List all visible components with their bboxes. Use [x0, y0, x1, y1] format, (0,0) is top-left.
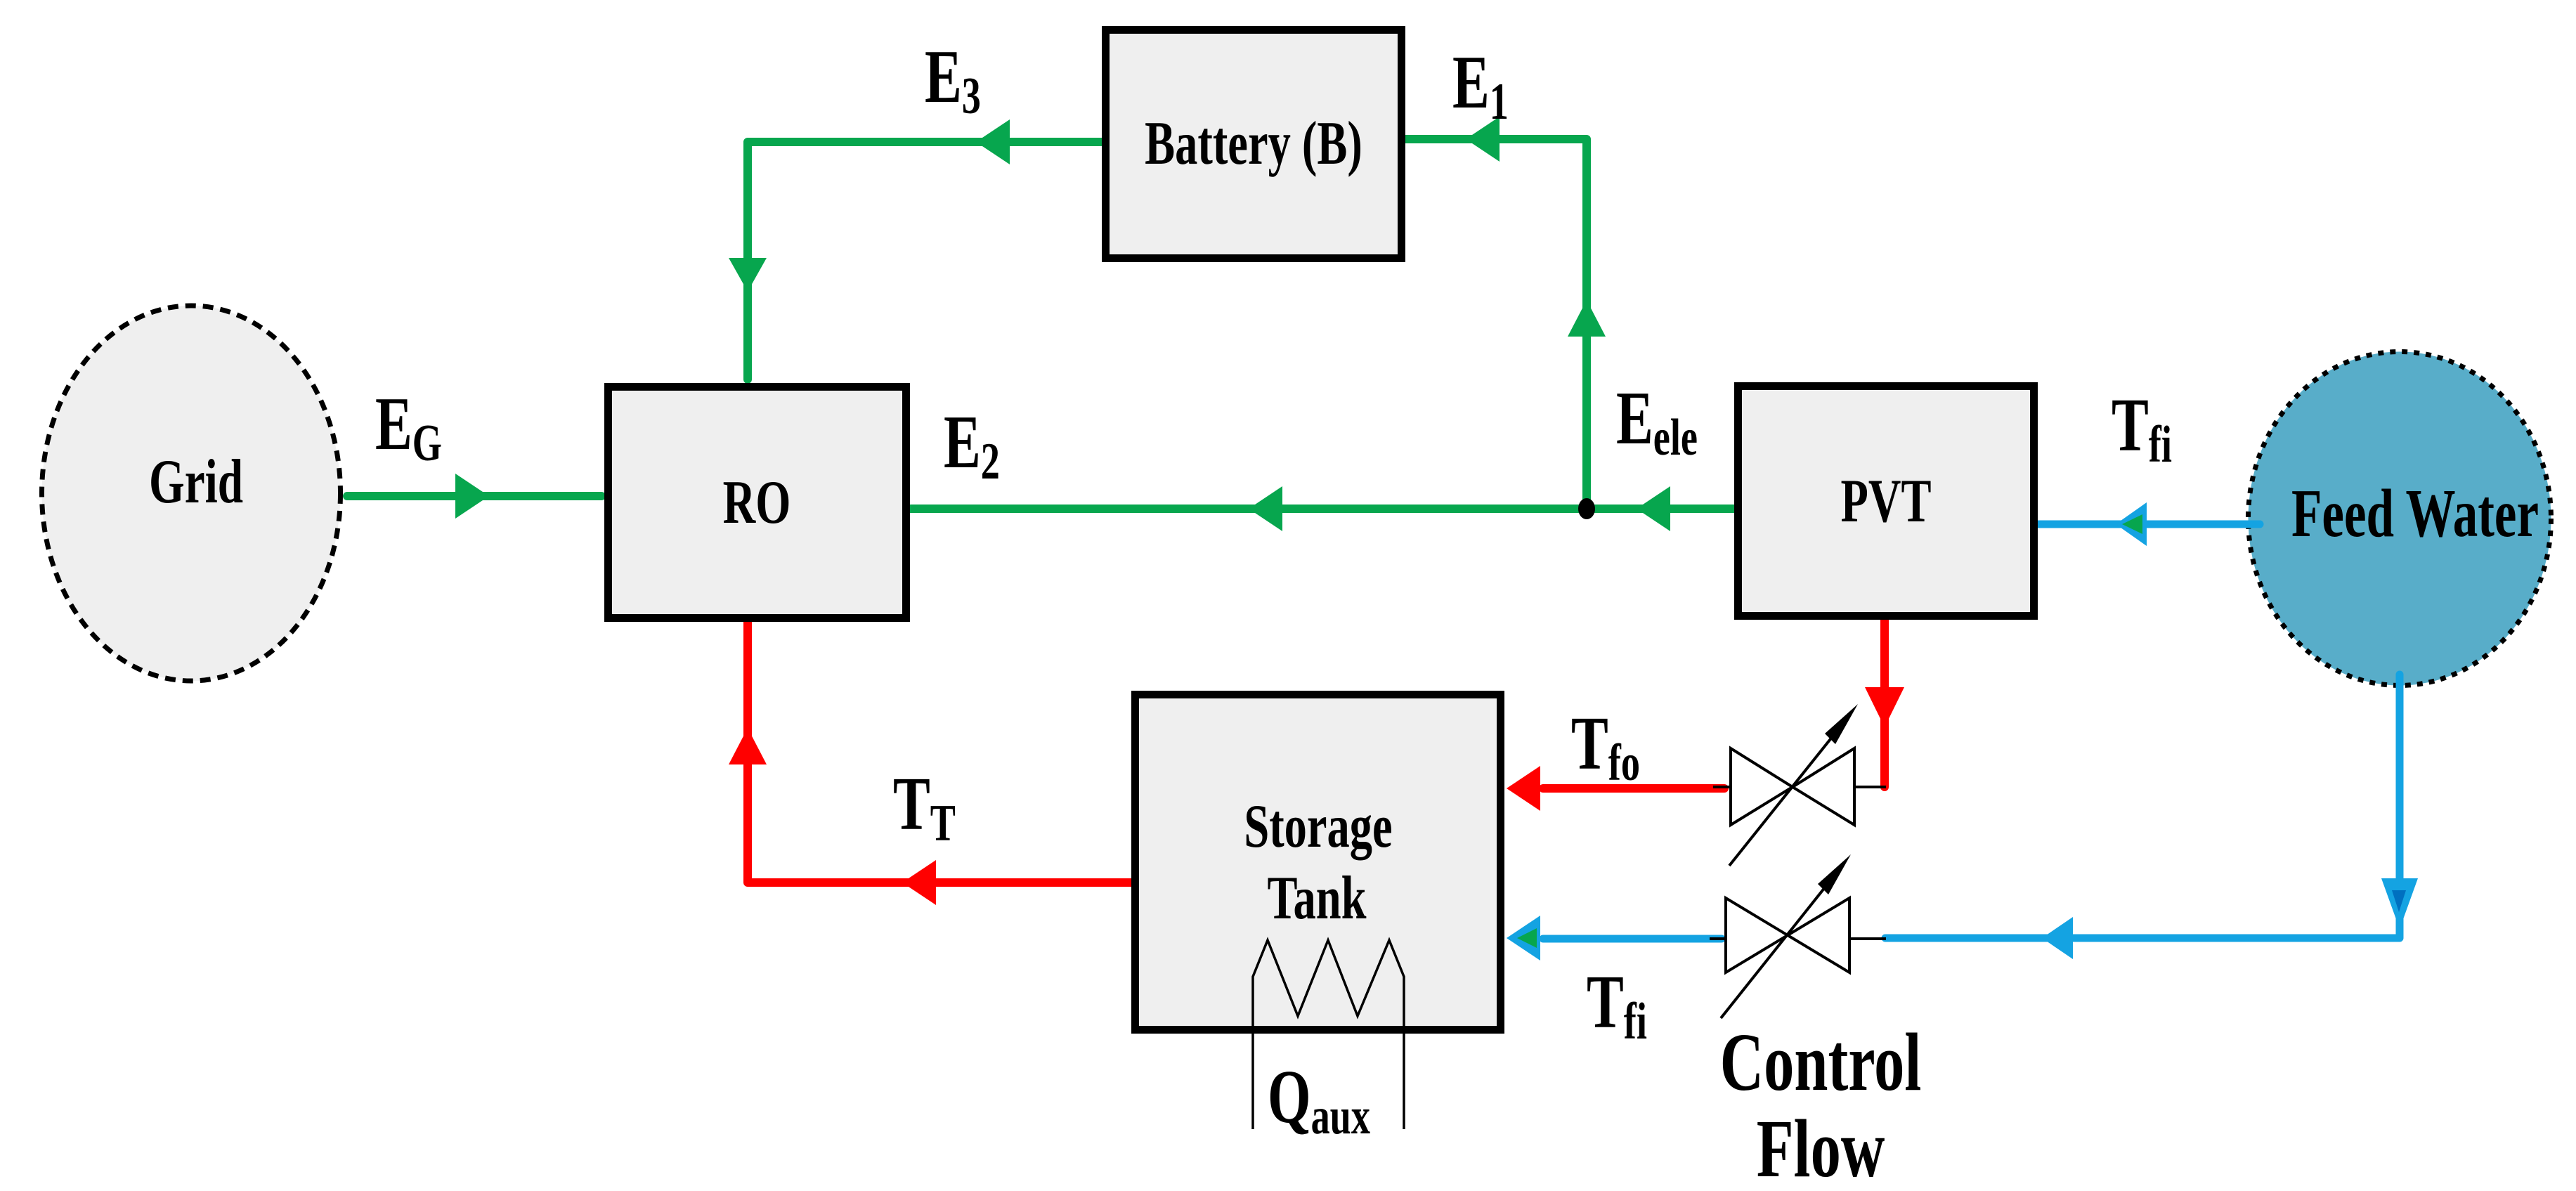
svg-text:Storage: Storage: [1244, 791, 1392, 860]
svg-text:Grid: Grid: [149, 446, 243, 516]
svg-text:Battery (B): Battery (B): [1145, 108, 1362, 177]
svg-text:PVT: PVT: [1840, 466, 1931, 535]
svg-text:Feed Water: Feed Water: [2291, 476, 2539, 551]
svg-text:Tank: Tank: [1267, 863, 1366, 932]
svg-text:Control: Control: [1720, 1017, 1922, 1108]
svg-text:Flow: Flow: [1757, 1103, 1885, 1191]
svg-text:RO: RO: [723, 467, 791, 536]
